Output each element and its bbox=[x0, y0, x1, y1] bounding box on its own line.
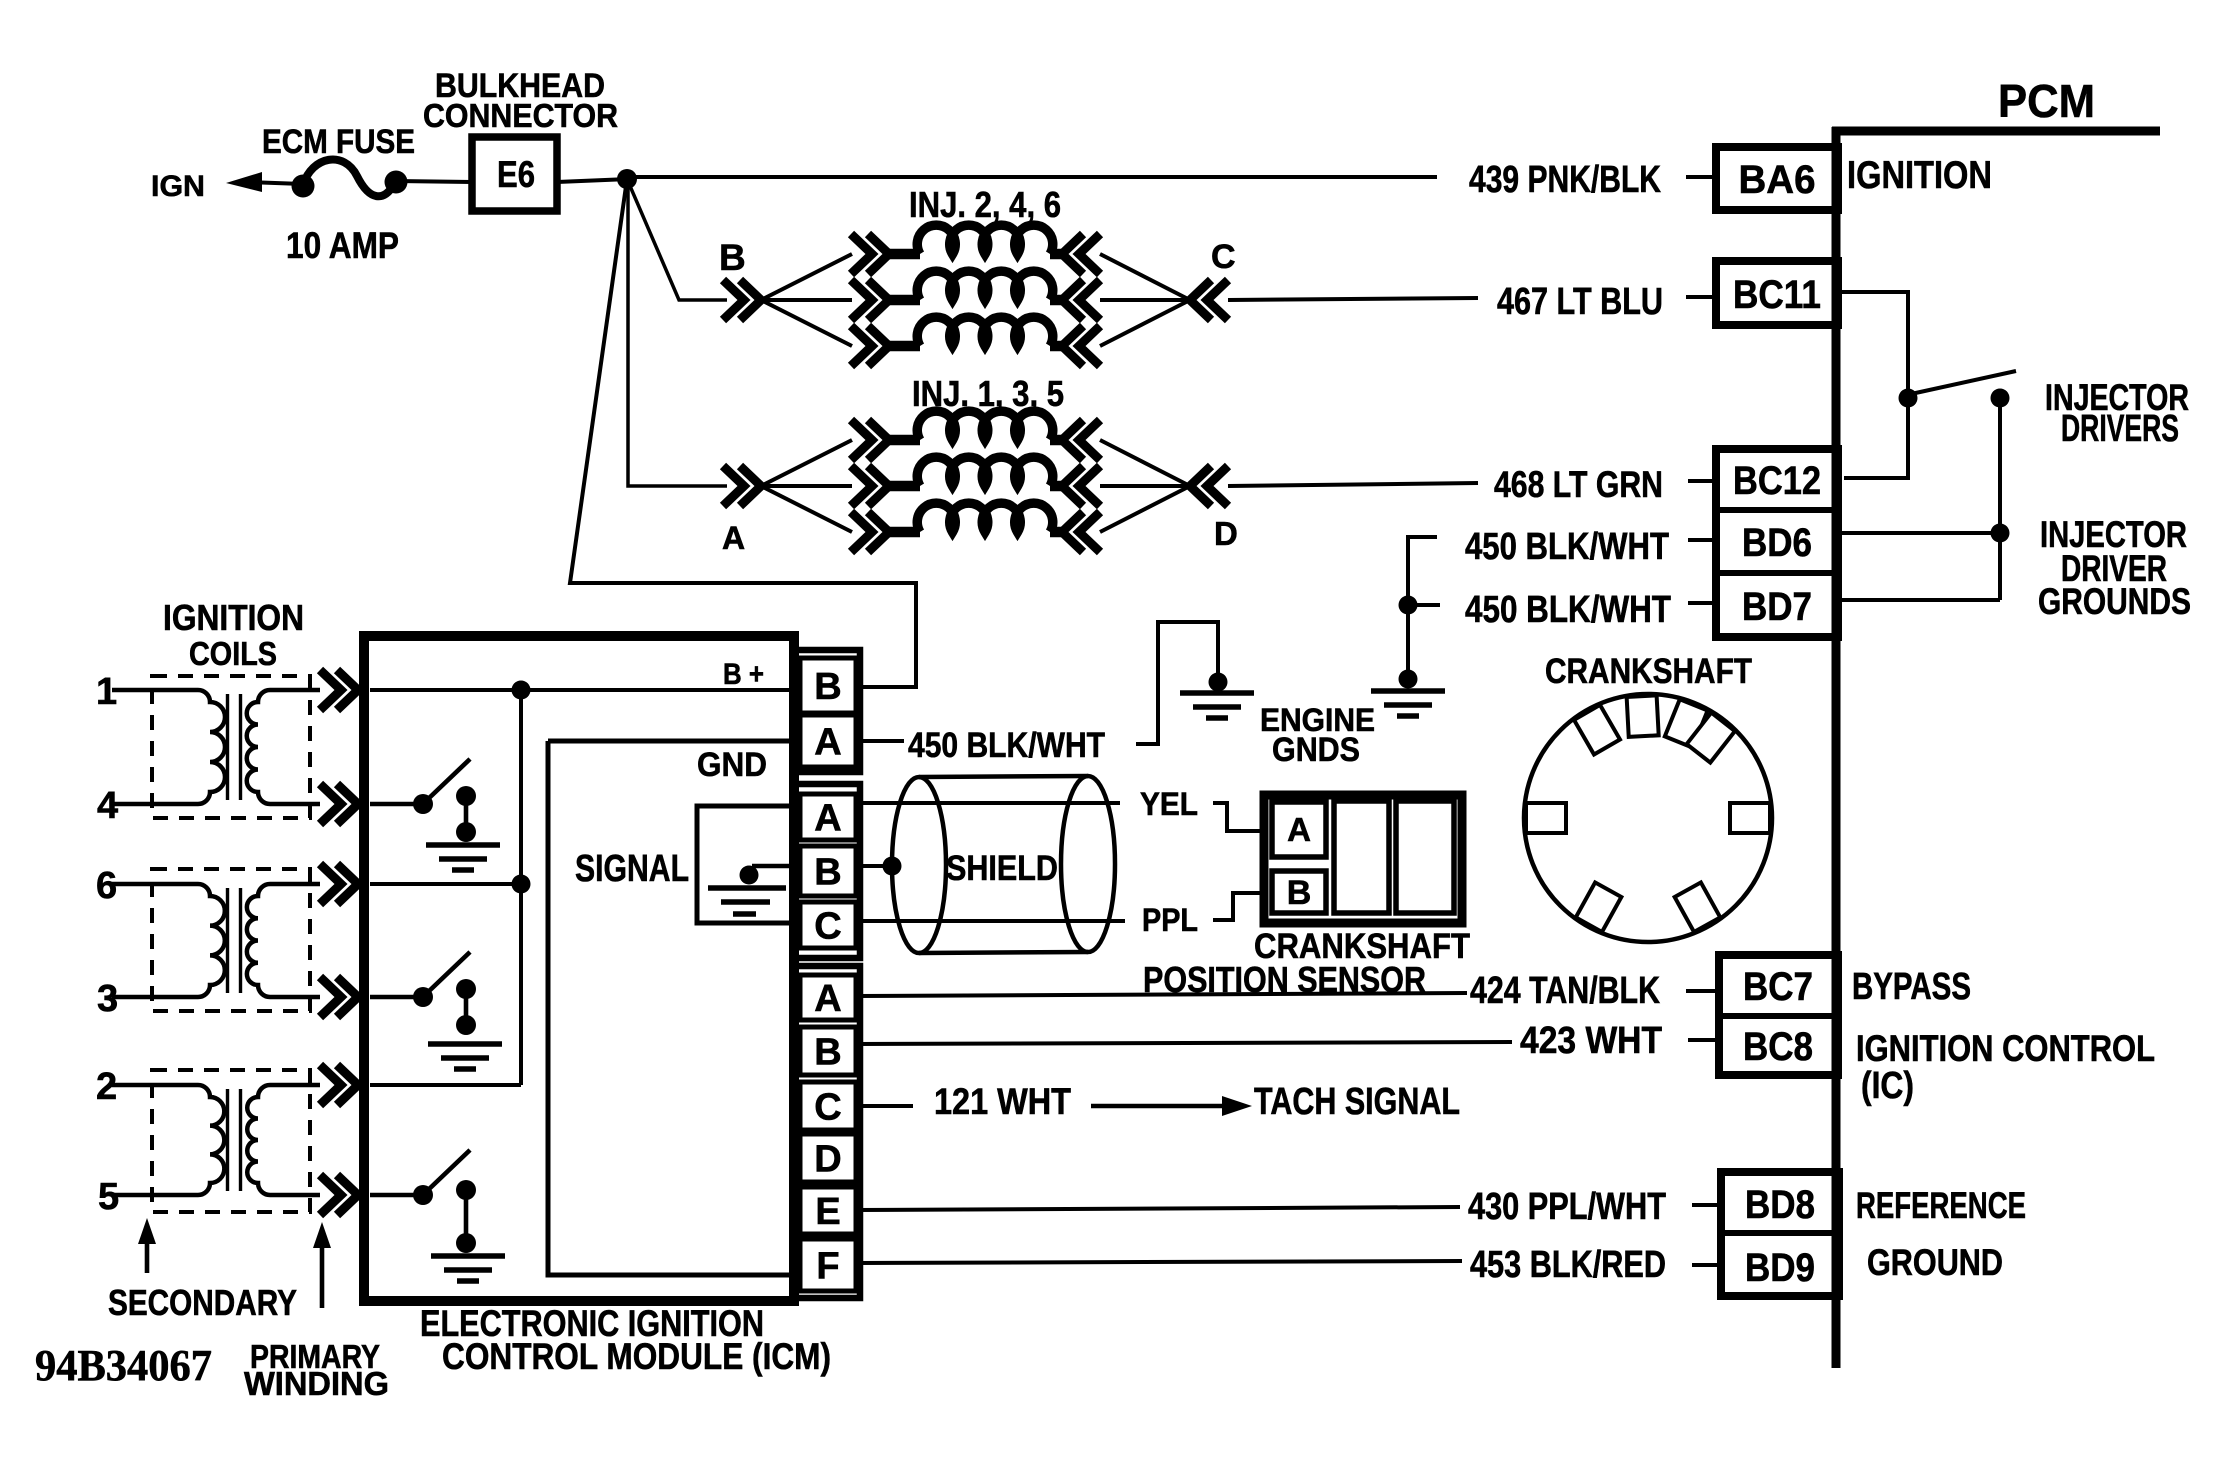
svg-text:BD9: BD9 bbox=[1745, 1246, 1815, 1290]
svg-text:IGNITION: IGNITION bbox=[1847, 154, 1992, 197]
injector coil left connector row y=254 bbox=[851, 234, 889, 274]
svg-text:450 BLK/WHT: 450 BLK/WHT bbox=[1465, 589, 1671, 631]
wire splice to injector bank A bbox=[628, 179, 727, 486]
switch injector drivers flipper bbox=[1911, 371, 2016, 394]
ground switch Q2 bbox=[428, 1044, 502, 1069]
svg-text:IGN: IGN bbox=[151, 170, 205, 203]
ICM input connector chevron row y=1085 bbox=[320, 1065, 358, 1105]
injector coil right connector row y=486 bbox=[1062, 466, 1100, 506]
svg-text:YEL: YEL bbox=[1140, 786, 1198, 822]
svg-text:CONTROL MODULE (ICM): CONTROL MODULE (ICM) bbox=[442, 1336, 831, 1377]
connector B chevron bbox=[723, 280, 761, 320]
ICM electronic ignition control module box bbox=[364, 636, 794, 1301]
wire IGN arrow bbox=[226, 172, 262, 192]
wire ICM pin A to 450 BLK/WHT bbox=[859, 739, 904, 743]
svg-text:121 WHT: 121 WHT bbox=[934, 1081, 1071, 1122]
svg-text:BC11: BC11 bbox=[1733, 273, 1821, 317]
PCM pin group BC12 BD6 BD7 bbox=[1716, 449, 1838, 637]
node injector driver ground junction bbox=[1991, 524, 2010, 543]
connector crankshaft position sensor bbox=[1264, 795, 1462, 923]
ground internal signal ground bbox=[708, 866, 800, 915]
svg-text:A: A bbox=[814, 722, 841, 764]
svg-text:IGNITION: IGNITION bbox=[163, 597, 304, 638]
wire shield drain from ICM pin B bbox=[858, 864, 892, 868]
wire fan coils to C bbox=[1100, 254, 1190, 346]
svg-text:C: C bbox=[1211, 238, 1236, 276]
svg-text:BC8: BC8 bbox=[1743, 1025, 1813, 1069]
svg-text:ECM FUSE: ECM FUSE bbox=[262, 123, 415, 161]
wire 467 LT BLU bbox=[1228, 298, 1478, 300]
svg-text:468 LT GRN: 468 LT GRN bbox=[1494, 464, 1663, 505]
wire stub to BD6 bbox=[1688, 538, 1714, 542]
svg-text:SECONDARY: SECONDARY bbox=[108, 1282, 297, 1323]
svg-text:BD6: BD6 bbox=[1742, 521, 1812, 565]
fuse F1 ECM FUSE 10 AMP bbox=[292, 159, 408, 197]
wire arrow to TACH SIGNAL bbox=[1091, 1096, 1252, 1116]
ground engine ground 2 bbox=[1371, 691, 1445, 716]
wire fan coils to D bbox=[1100, 440, 1190, 532]
wire 450 BLK/WHT bracket bbox=[1408, 537, 1437, 605]
svg-text:GNDS: GNDS bbox=[1272, 731, 1360, 769]
svg-text:E6: E6 bbox=[497, 154, 535, 195]
svg-text:SIGNAL: SIGNAL bbox=[575, 848, 689, 890]
svg-text:REFERENCE: REFERENCE bbox=[1856, 1185, 2026, 1226]
wire coil 6 feed bbox=[370, 882, 521, 886]
ICM connector group 3 pins A-F bbox=[793, 966, 860, 1298]
svg-text:COILS: COILS bbox=[189, 635, 277, 672]
svg-text:SHIELD: SHIELD bbox=[946, 849, 1058, 888]
svg-text:GND: GND bbox=[697, 746, 767, 784]
svg-text:D: D bbox=[814, 1139, 841, 1181]
svg-text:94B34067: 94B34067 bbox=[35, 1341, 212, 1390]
wire PCM internal BC11 to switch bbox=[1841, 292, 1908, 478]
wire 453 BLK/RED bbox=[858, 1261, 1462, 1263]
injector coil winding row y=532 bbox=[917, 503, 1053, 532]
svg-text:C: C bbox=[814, 1087, 841, 1129]
wire stub to BC11 bbox=[1686, 295, 1714, 299]
ground switch Q3 bbox=[431, 1256, 505, 1281]
wire coil 2 feed bbox=[370, 1083, 521, 1087]
svg-text:423 WHT: 423 WHT bbox=[1520, 1020, 1662, 1062]
wire YEL from ICM pin A bbox=[858, 801, 1120, 805]
svg-text:B: B bbox=[814, 666, 841, 708]
injector coil right connector row y=532 bbox=[1062, 512, 1100, 552]
crankshaft reluctor wheel bbox=[1524, 694, 1772, 942]
svg-text:B: B bbox=[814, 852, 841, 894]
injector coil right connector row y=440 bbox=[1062, 420, 1100, 460]
ICM input connector chevron row y=884 bbox=[320, 864, 358, 904]
svg-text:453 BLK/RED: 453 BLK/RED bbox=[1470, 1244, 1666, 1286]
injector coil right connector row y=300 bbox=[1062, 280, 1100, 320]
injector coil right connector row y=346 bbox=[1062, 326, 1100, 366]
svg-text:10 AMP: 10 AMP bbox=[286, 225, 399, 266]
svg-text:A: A bbox=[814, 978, 841, 1020]
svg-text:B +: B + bbox=[723, 658, 764, 691]
svg-text:BC7: BC7 bbox=[1743, 965, 1813, 1009]
wire to engine ground 2 bbox=[1406, 605, 1410, 679]
wire BD6 to junction bbox=[1841, 531, 2000, 535]
wire PPL from ICM pin C bbox=[858, 919, 1125, 923]
injector coil left connector row y=532 bbox=[851, 512, 889, 552]
ICM input connector chevron row y=1195 bbox=[320, 1175, 358, 1215]
injector coil winding row y=486 bbox=[917, 457, 1053, 486]
svg-text:450 BLK/WHT: 450 BLK/WHT bbox=[1465, 526, 1669, 568]
injector coil right connector row y=254 bbox=[1062, 234, 1100, 274]
injector coil left connector row y=346 bbox=[851, 326, 889, 366]
wire stub 121 WHT bbox=[861, 1104, 913, 1108]
wire 450 BLK/WHT to engine ground 1 bbox=[1136, 622, 1218, 744]
wire stub from splice bbox=[1415, 603, 1440, 607]
svg-text:PPL: PPL bbox=[1142, 902, 1198, 938]
wire 439 PNK/BLK to PCM BA6 bbox=[627, 175, 1437, 179]
ICM input connector chevron row y=997 bbox=[320, 977, 358, 1017]
svg-text:430 PPL/WHT: 430 PPL/WHT bbox=[1468, 1186, 1666, 1228]
ignition coil transformer T3 (2/5) bbox=[112, 1070, 320, 1212]
svg-text:PCM: PCM bbox=[1998, 75, 2095, 127]
svg-text:D: D bbox=[1214, 515, 1238, 552]
svg-text:439 PNK/BLK: 439 PNK/BLK bbox=[1469, 159, 1661, 201]
wire E6 to splice bbox=[557, 179, 629, 182]
wire B+ bus row 1 bbox=[370, 688, 800, 692]
node B+ junction row1 bbox=[512, 681, 531, 700]
wire stub to BD9 bbox=[1692, 1263, 1718, 1267]
wire YEL into sensor pin A bbox=[1213, 803, 1264, 831]
wire B+ vertical bus bbox=[519, 690, 523, 1085]
ICM internal signal box bbox=[548, 741, 797, 1275]
svg-text:INJ. 2, 4, 6: INJ. 2, 4, 6 bbox=[909, 184, 1061, 225]
injector coil left connector row y=486 bbox=[851, 466, 889, 506]
ignition coil transformer T2 (6/3) bbox=[112, 869, 320, 1011]
node injector driver switch left bbox=[1899, 389, 1918, 408]
svg-text:E: E bbox=[815, 1191, 840, 1233]
wire 423 WHT bbox=[858, 1042, 1512, 1044]
PCM pin group BC7 BC8 bbox=[1719, 955, 1838, 1075]
svg-text:BD7: BD7 bbox=[1742, 585, 1812, 629]
svg-text:DRIVERS: DRIVERS bbox=[2061, 408, 2179, 450]
svg-text:A: A bbox=[814, 798, 841, 840]
wire stub to BC12 bbox=[1688, 479, 1714, 483]
injector coil left connector row y=300 bbox=[851, 280, 889, 320]
node injector driver switch right bbox=[1991, 389, 2010, 408]
svg-text:CONNECTOR: CONNECTOR bbox=[423, 97, 618, 134]
svg-text:TACH SIGNAL: TACH SIGNAL bbox=[1254, 1081, 1460, 1123]
wire splice to ICM B+ pin B bbox=[570, 179, 916, 687]
svg-text:BA6: BA6 bbox=[1739, 158, 1816, 202]
wire splice to injector bank B bbox=[627, 179, 727, 300]
svg-text:C: C bbox=[814, 906, 841, 948]
wire 424 TAN/BLK bbox=[858, 993, 1467, 996]
wire 430 PPL/WHT bbox=[858, 1207, 1460, 1210]
connector A chevron bbox=[723, 466, 761, 506]
svg-text:CRANKSHAFT: CRANKSHAFT bbox=[1545, 652, 1752, 691]
svg-text:BC12: BC12 bbox=[1733, 459, 1821, 503]
transistor switch Q1 (coil 1/4) bbox=[370, 759, 476, 842]
wire GND pin A feed bbox=[548, 739, 797, 744]
svg-text:424 TAN/BLK: 424 TAN/BLK bbox=[1470, 970, 1660, 1012]
node engine ground 1 splice bbox=[1209, 673, 1228, 692]
PCM pin group BD8 BD9 bbox=[1721, 1172, 1839, 1296]
injector coil winding row y=254 bbox=[917, 225, 1053, 254]
svg-text:F: F bbox=[816, 1246, 839, 1288]
svg-text:467 LT BLU: 467 LT BLU bbox=[1497, 281, 1663, 323]
node B+ junction row6 bbox=[512, 875, 531, 894]
ICM connector group 1 pins B A bbox=[793, 650, 860, 772]
wire stub to BD7 bbox=[1688, 601, 1714, 605]
svg-text:IGNITION CONTROL: IGNITION CONTROL bbox=[1856, 1028, 2155, 1069]
ICM sensor signal inner box bbox=[697, 806, 797, 923]
svg-text:GROUNDS: GROUNDS bbox=[2038, 581, 2191, 622]
node shield connection bbox=[883, 857, 902, 876]
svg-text:A: A bbox=[722, 520, 745, 556]
svg-text:B: B bbox=[814, 1032, 841, 1074]
PCM left boundary bbox=[1832, 127, 1841, 1368]
svg-text:450 BLK/WHT: 450 BLK/WHT bbox=[908, 726, 1105, 765]
ground engine ground 1 bbox=[1180, 693, 1254, 718]
ignition coil transformer T1 (1/4) bbox=[112, 676, 320, 818]
wire BD7 to junction bbox=[1841, 598, 2000, 602]
ground switch Q1 bbox=[426, 845, 500, 870]
connector D chevron bbox=[1190, 466, 1228, 506]
svg-text:(IC): (IC) bbox=[1861, 1065, 1914, 1107]
wire stub to BD8 bbox=[1692, 1203, 1718, 1207]
svg-text:A: A bbox=[1287, 811, 1311, 848]
transistor switch Q3 (coil 2/5) bbox=[370, 1150, 476, 1253]
svg-text:B: B bbox=[719, 237, 746, 278]
svg-text:B: B bbox=[1287, 874, 1312, 912]
PCM pin BC11 bbox=[1716, 261, 1838, 325]
injector coil winding row y=440 bbox=[917, 411, 1053, 440]
ICM connector group 2 pins A B C bbox=[793, 784, 860, 958]
ICM input connector chevron row y=690 bbox=[320, 670, 358, 710]
wire fan A to coils bbox=[761, 440, 852, 532]
wire fuse to E6 bbox=[396, 181, 472, 182]
wire fan B to coils bbox=[761, 254, 852, 346]
node engine ground 2 splice bbox=[1399, 670, 1418, 689]
svg-text:GROUND: GROUND bbox=[1867, 1242, 2003, 1283]
PCM pin BA6 bbox=[1716, 147, 1838, 210]
connector C chevron bbox=[1190, 280, 1228, 320]
connector E6 box bbox=[472, 137, 557, 211]
svg-text:WINDING: WINDING bbox=[244, 1365, 389, 1402]
shield cable shield bbox=[892, 776, 1115, 953]
PCM top boundary bbox=[1832, 127, 2160, 136]
label arrow SECONDARY bbox=[138, 1218, 156, 1273]
node 450 splice bbox=[1399, 596, 1418, 615]
wire stub to BC7 bbox=[1686, 989, 1716, 993]
label arrow PRIMARY WINDING bbox=[313, 1222, 331, 1308]
wire PPL into sensor pin B bbox=[1213, 893, 1264, 920]
wire 468 LT GRN bbox=[1228, 483, 1478, 486]
transistor switch Q2 (coil 6/3) bbox=[370, 952, 476, 1035]
injector coil winding row y=346 bbox=[917, 317, 1053, 346]
svg-text:BD8: BD8 bbox=[1745, 1183, 1815, 1227]
injector coil left connector row y=440 bbox=[851, 420, 889, 460]
wire PCM internal to driver grounds bbox=[1998, 398, 2002, 600]
wire stub to BC8 bbox=[1688, 1038, 1716, 1042]
ICM input connector chevron row y=804 bbox=[320, 784, 358, 824]
wire stub to BA6 bbox=[1686, 175, 1714, 179]
injector coil winding row y=300 bbox=[917, 271, 1053, 300]
node splice S1 bbox=[617, 169, 637, 189]
svg-text:BYPASS: BYPASS bbox=[1852, 966, 1971, 1008]
